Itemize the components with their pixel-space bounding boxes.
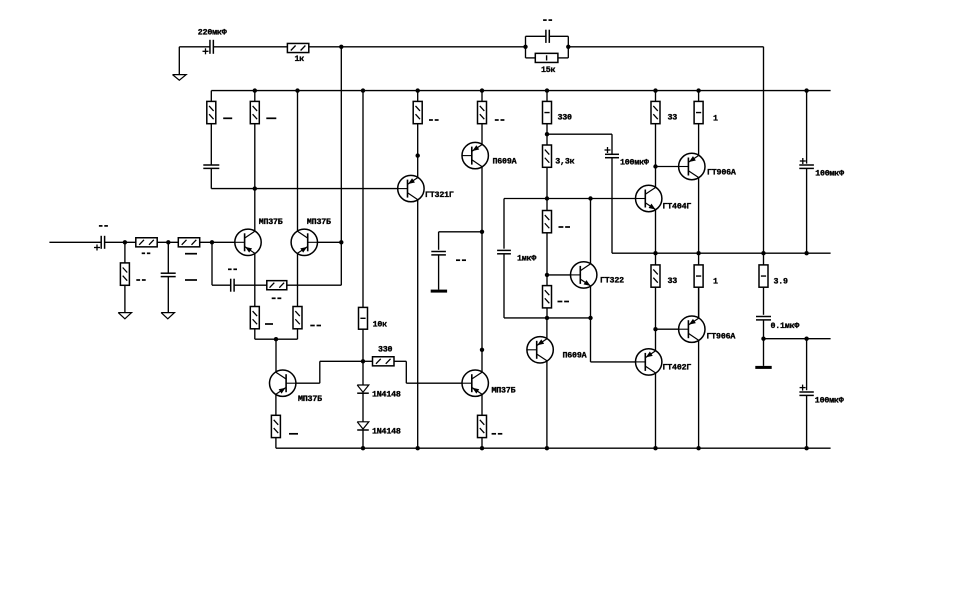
svg-text:1к: 1к [295,55,305,64]
svg-text:МП37Б: МП37Б [298,395,322,404]
svg-text:ГТ321Г: ГТ321Г [425,191,454,200]
svg-text:МП37Б: МП37Б [492,387,516,396]
svg-text:3.9: 3.9 [774,278,789,287]
svg-text:10к: 10к [373,321,388,330]
svg-text:100мкФ: 100мкФ [620,159,649,168]
svg-text:МП37Б: МП37Б [307,218,331,227]
svg-text:МП37Б: МП37Б [259,218,283,227]
svg-text:330: 330 [378,346,393,355]
svg-text:100мкФ: 100мкФ [815,396,844,405]
svg-text:ГТ906А: ГТ906А [707,169,736,178]
svg-text:П609А: П609А [563,352,587,361]
svg-text:ГТ402Г: ГТ402Г [663,364,692,373]
svg-text:1: 1 [713,115,718,124]
svg-text:15к: 15к [541,66,556,75]
svg-text:220мкФ: 220мкФ [198,28,227,37]
svg-text:ГТ404Г: ГТ404Г [663,203,692,212]
svg-text:33: 33 [668,277,678,286]
svg-text:1N4148: 1N4148 [372,391,401,400]
svg-text:1: 1 [713,278,718,287]
svg-text:3,3к: 3,3к [555,158,574,167]
svg-text:0.1мкФ: 0.1мкФ [771,322,800,331]
svg-text:330: 330 [558,114,573,123]
svg-text:ГТ906А: ГТ906А [707,333,736,342]
svg-text:1N4148: 1N4148 [372,428,401,437]
svg-text:33: 33 [668,114,678,123]
svg-text:П609А: П609А [493,158,517,167]
svg-text:100мкФ: 100мкФ [815,169,844,178]
svg-text:1мкФ: 1мкФ [517,255,536,264]
svg-text:ГТ322: ГТ322 [600,277,624,286]
